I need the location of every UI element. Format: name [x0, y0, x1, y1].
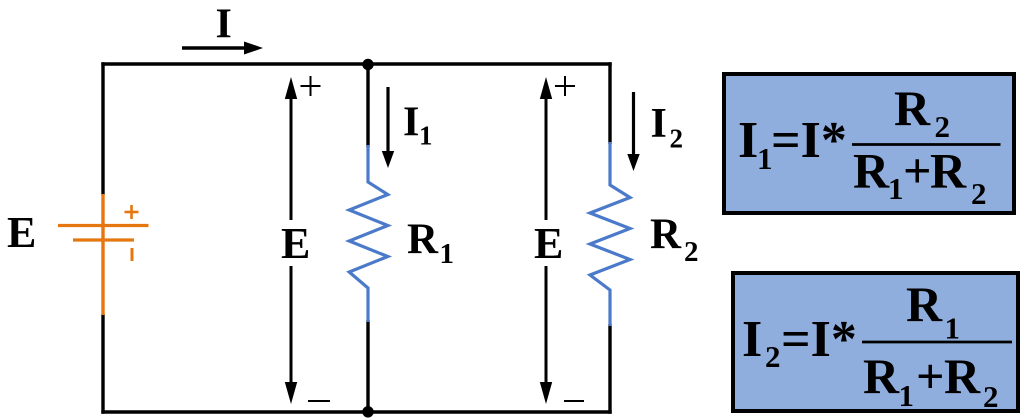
svg-text:E: E: [281, 219, 310, 268]
svg-text:2: 2: [684, 236, 699, 268]
node A (top junction dot): [362, 59, 373, 70]
wire: left vertical upper segment (to battery): [101, 62, 104, 195]
svg-text:E: E: [7, 208, 36, 257]
wire: right branch upper black segment: [608, 62, 611, 144]
svg-text:+: +: [916, 348, 945, 404]
node B (bottom junction dot): [362, 406, 373, 417]
svg-text:R: R: [930, 143, 967, 199]
wire: top horizontal from left corner to right corner: [101, 62, 611, 65]
svg-text:I: I: [742, 311, 762, 368]
svg-text:+: +: [903, 143, 932, 199]
svg-text:1: 1: [440, 238, 455, 270]
fraction bar 1: [852, 143, 1001, 146]
wire: bottom horizontal from left corner to right corner: [101, 410, 611, 413]
svg-text:R: R: [894, 80, 931, 136]
wire: middle branch upper black segment: [366, 64, 369, 147]
fraction bar 2: [862, 341, 1012, 344]
svg-text:1: 1: [888, 171, 904, 206]
minus sign (right arrow bottom): [564, 400, 584, 402]
svg-text:R: R: [407, 216, 439, 263]
plus sign (left arrow top): [301, 76, 321, 96]
svg-text:I: I: [651, 101, 667, 147]
svg-text:E: E: [534, 219, 563, 268]
svg-text:2: 2: [935, 109, 951, 144]
battery plus sign: [125, 211, 139, 214]
svg-text:1: 1: [899, 378, 915, 413]
svg-text:2: 2: [765, 339, 781, 374]
current arrow I (top): [182, 42, 263, 55]
minus sign (left arrow bottom): [308, 400, 330, 402]
wire: left vertical lower segment (from battery): [101, 314, 104, 414]
voltage arrow E (right, double headed): [540, 77, 552, 404]
svg-text:R: R: [863, 348, 900, 404]
battery plate long (+): [58, 224, 149, 227]
wire: right branch lower black segment: [608, 324, 611, 414]
formula box 1: I1 = I * R2/(R1+R2): [724, 74, 1014, 213]
svg-text:R: R: [650, 211, 682, 258]
formula box 2: I2 = I * R1/(R1+R2): [733, 273, 1018, 414]
battery E (voltage source, orange): [58, 194, 149, 315]
svg-text:R: R: [853, 143, 890, 199]
svg-text:2: 2: [670, 124, 684, 154]
svg-text:2: 2: [971, 176, 987, 211]
svg-text:I: I: [403, 100, 419, 146]
battery lead vertical: [101, 194, 104, 315]
svg-text:=I*: =I*: [781, 311, 857, 368]
svg-text:1: 1: [945, 311, 961, 346]
battery plate short (-): [73, 238, 134, 241]
svg-text:R: R: [906, 276, 943, 332]
resistor R2 (blue zigzag with blue leads): [590, 142, 630, 326]
resistor R1 (blue zigzag with blue leads): [349, 145, 388, 322]
svg-text:=I*: =I*: [771, 112, 847, 169]
voltage arrow E (left, double headed): [285, 77, 297, 404]
svg-text:2: 2: [983, 379, 999, 414]
battery minus tick: [131, 248, 134, 261]
svg-text:I: I: [738, 112, 758, 169]
current arrow I2: [627, 92, 639, 171]
current arrow I1: [382, 87, 394, 168]
svg-text:1: 1: [419, 121, 433, 151]
svg-text:R: R: [944, 348, 981, 404]
plus sign (right arrow top): [555, 76, 575, 96]
wire: middle branch lower black segment: [366, 320, 369, 412]
svg-text:I: I: [216, 2, 232, 48]
